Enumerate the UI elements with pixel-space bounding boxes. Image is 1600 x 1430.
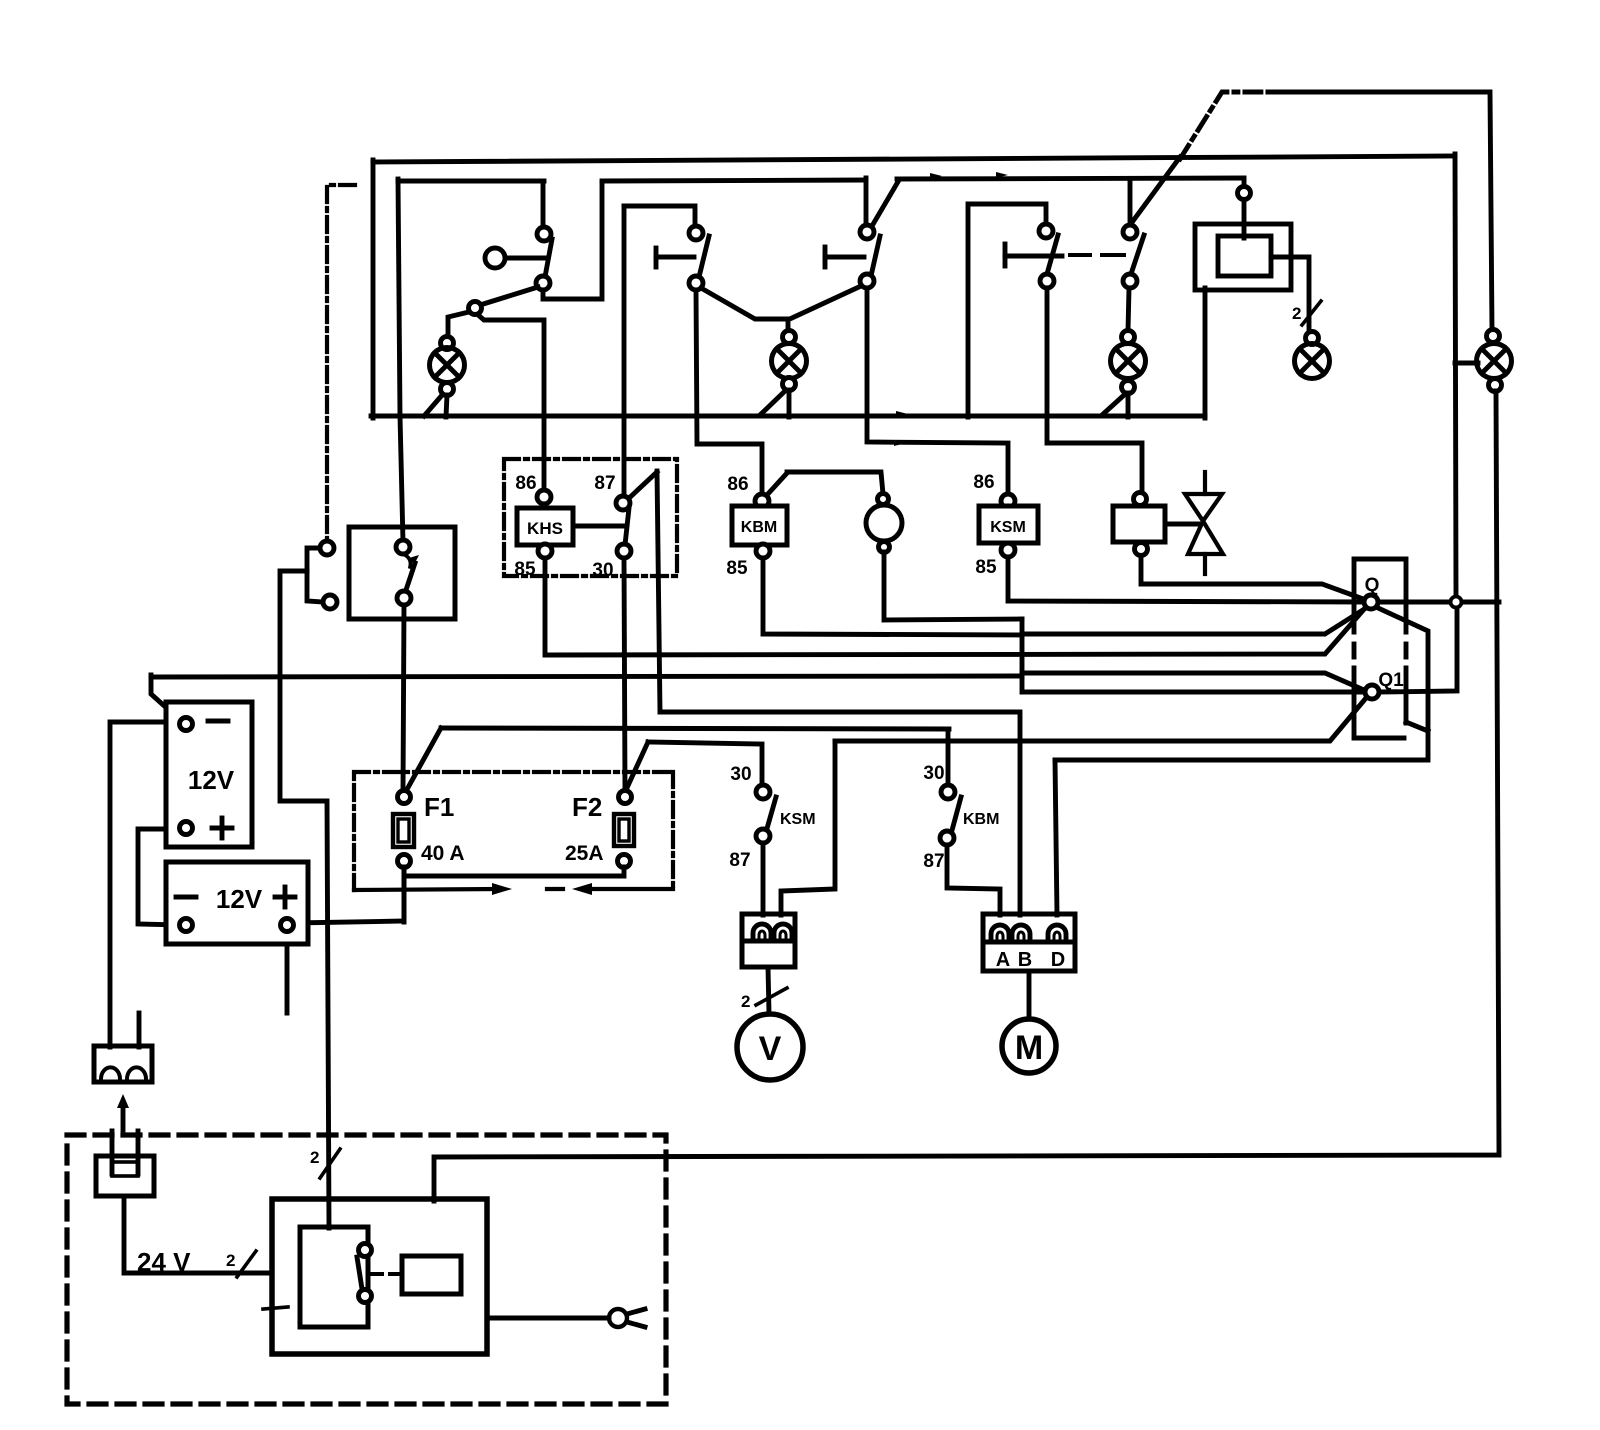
- voltmeter V: [737, 1014, 803, 1080]
- KSM 85 wire to Q: [1008, 557, 1364, 602]
- push switch SB bracket: [307, 548, 323, 602]
- valve link: [1165, 522, 1200, 527]
- KHS pivot wire: [657, 471, 660, 712]
- switch S2 actuator bar: [656, 248, 694, 267]
- push switch SB tap wire: [280, 571, 329, 1228]
- relay K terminal stub: [1242, 178, 1247, 188]
- switch S3 feed corner: [864, 178, 869, 227]
- lamp L3 bottom wires: [1102, 393, 1128, 417]
- switch S1 top contact: [537, 227, 551, 241]
- lamp L1 top terminal: [441, 337, 454, 350]
- inner top wire segment 1: [398, 179, 544, 184]
- fuse F2 top terminal: [619, 791, 632, 804]
- battery G1 negative arrow: [166, 709, 184, 723]
- svg-text:F1: F1: [424, 792, 454, 822]
- battery G2 down wire: [285, 932, 290, 1013]
- solenoid Y top terminal: [1134, 493, 1147, 506]
- svg-text:87: 87: [729, 850, 750, 871]
- heater plug output wire: [124, 1196, 271, 1273]
- switch S1 output jog wire: [543, 183, 602, 299]
- switch S1 lever: [545, 239, 552, 277]
- solenoid Y box: [1113, 506, 1165, 542]
- KHS pivot to connector B wire: [660, 712, 1020, 915]
- left frame wire: [371, 160, 376, 418]
- relay K inner box: [1218, 236, 1271, 276]
- switch S3 bottom contact: [860, 274, 874, 288]
- svg-text:85: 85: [514, 559, 536, 580]
- switch KBM top contact: [941, 785, 955, 799]
- svg-text:KSM: KSM: [780, 811, 816, 828]
- connector X1: [742, 914, 795, 967]
- charger box: [272, 1199, 487, 1354]
- dash-dot link top right: [1180, 92, 1274, 159]
- lamp L2 bottom terminal: [783, 378, 796, 391]
- lamp L3 top terminal: [1122, 331, 1135, 344]
- svg-text:KSM: KSM: [990, 519, 1026, 536]
- battery G1 negative corner wire: [151, 675, 180, 720]
- switch S3 actuator bar: [825, 247, 864, 267]
- KHS 85 terminal: [538, 544, 552, 558]
- lower fuse FU: [94, 1046, 152, 1082]
- pump feed terminal: [878, 494, 889, 505]
- KHS 86 feed wire: [477, 314, 544, 491]
- switch S2 to lamp L2 wire: [701, 288, 788, 331]
- inner top wire segment 2: [602, 180, 866, 181]
- svg-text:24 V: 24 V: [137, 1247, 191, 1277]
- lower fuse feed wire: [137, 1013, 142, 1047]
- bottom return wire: [434, 391, 1499, 1201]
- lamp L4 terminal: [1306, 332, 1319, 345]
- breaker bottom contact: [397, 591, 411, 605]
- F1 feed drop wire: [398, 179, 403, 542]
- relay K terminal: [1238, 187, 1251, 200]
- lamp L5: [1477, 344, 1512, 379]
- junction circle: [469, 302, 482, 315]
- pump symbol: [866, 505, 902, 541]
- switch S2 lever: [699, 236, 709, 277]
- lamp L5 left branch wire: [1455, 361, 1478, 366]
- switch S1 mid contact: [536, 276, 550, 290]
- switch S4 right lever: [1131, 235, 1144, 274]
- lamp L2 top terminal: [783, 331, 796, 344]
- switch KSM output wire: [761, 843, 766, 915]
- slash at lamp L4: [1302, 301, 1321, 325]
- switch S4 left lever: [1047, 235, 1058, 274]
- fuse F1 top terminal: [398, 791, 411, 804]
- KBM 85 terminal: [756, 544, 770, 558]
- battery G1 to fuse wire: [110, 722, 180, 1047]
- svg-text:86: 86: [515, 473, 536, 494]
- switch S4 feed wire: [968, 204, 1046, 417]
- battery series wire: [138, 829, 180, 925]
- top right wire to lamp L5: [1272, 92, 1492, 330]
- big dashed box: [67, 1135, 666, 1404]
- wire pump to Q1 jog: [1022, 619, 1365, 692]
- connector X1 right pin wire: [781, 741, 835, 915]
- charger contact link: [372, 1272, 402, 1276]
- switch S3 top contact: [860, 225, 874, 239]
- svg-text:2: 2: [741, 992, 750, 1011]
- breaker lever: [405, 563, 415, 593]
- F1 load wire: [405, 728, 949, 793]
- switch S4 left top contact: [1039, 224, 1053, 238]
- fuse box dash outline: [354, 772, 673, 890]
- svg-text:30: 30: [592, 560, 613, 581]
- wire KBM85 to Q: [1022, 608, 1366, 634]
- lamp L1: [430, 348, 465, 383]
- switch S4 left bottom contact: [1040, 274, 1054, 288]
- svg-text:86: 86: [973, 472, 994, 493]
- motor feed stub: [1027, 971, 1032, 1020]
- battery G1: [166, 702, 252, 847]
- wire to connector D: [1055, 607, 1428, 760]
- lamp L2 bottom wires: [760, 390, 789, 417]
- switch KBM output wire: [947, 845, 1000, 915]
- switch KSM bottom contact: [756, 829, 770, 843]
- svg-text:A: A: [996, 949, 1010, 971]
- breaker to F1 wire: [403, 605, 404, 791]
- connector X2: [983, 914, 1075, 971]
- wire bus to Q1: [1022, 673, 1364, 690]
- fuse link wire: [406, 867, 624, 876]
- charger top contact: [359, 1244, 372, 1257]
- KBM 85 wire: [763, 558, 1022, 635]
- switch S3 diagonal feed: [872, 180, 899, 226]
- relay K coil stub: [1242, 199, 1247, 238]
- charger edge tick: [263, 1307, 288, 1309]
- wire to Q1 lower: [835, 698, 1366, 741]
- switch S4 right stub: [1128, 181, 1133, 226]
- breaker hook: [405, 555, 410, 567]
- switch KBM bottom contact: [940, 831, 954, 845]
- relay K box: [1195, 224, 1291, 290]
- switch KBM lever: [951, 797, 961, 834]
- heater plug prongs: [112, 1131, 138, 1174]
- charger bottom contact: [359, 1290, 372, 1303]
- charger coil: [402, 1256, 461, 1294]
- charger contact lever: [357, 1257, 362, 1289]
- slash at 24V: [237, 1251, 256, 1277]
- switch KSM top contact: [756, 785, 770, 799]
- switch S4 actuator bar: [1005, 244, 1062, 266]
- arrow tick on inner line: [930, 173, 942, 179]
- right vertical wire: [1455, 154, 1456, 597]
- fuse F2 bottom terminal: [618, 855, 631, 868]
- KSM coil box: [979, 506, 1038, 543]
- svg-text:12V: 12V: [216, 884, 263, 914]
- breaker lever arrow: [409, 555, 419, 565]
- KHS coil link: [573, 524, 626, 529]
- fuse F1 bottom terminal: [398, 855, 411, 868]
- switch S2 to KBM wire: [696, 290, 762, 495]
- lamp L3 feed wire: [1128, 288, 1129, 331]
- KBM coil box: [732, 506, 787, 545]
- switch S1 handle: [485, 248, 547, 268]
- voltmeter feed stub: [768, 967, 769, 1013]
- fuse box arrow right: [492, 883, 512, 895]
- outer top bus wire: [373, 156, 1455, 162]
- charger inner box: [300, 1227, 368, 1327]
- fuse F1: [393, 814, 414, 847]
- mains plug: [609, 1309, 645, 1327]
- connector D riser: [1055, 760, 1057, 915]
- svg-text:KHS: KHS: [527, 519, 563, 538]
- valve symbol: [1185, 472, 1223, 574]
- svg-text:2: 2: [1292, 304, 1301, 323]
- svg-text:D: D: [1051, 949, 1065, 971]
- lamp L3 bottom terminal: [1122, 381, 1135, 394]
- svg-text:B: B: [1018, 949, 1032, 971]
- KHS 87 riser: [622, 206, 627, 497]
- fuse F2: [614, 814, 634, 846]
- svg-text:Q1: Q1: [1378, 670, 1404, 691]
- Q output wire: [1378, 600, 1450, 605]
- switch S3 to KSM wire: [867, 288, 1008, 495]
- arrow to fuse: [117, 1094, 129, 1130]
- connector Q box: [1354, 559, 1406, 738]
- breaker top contact: [396, 540, 410, 554]
- inner top wire segment 3: [897, 178, 1244, 179]
- svg-text:30: 30: [923, 763, 944, 784]
- relay K feed riser: [1203, 288, 1208, 418]
- switch S4 to solenoid wire: [1047, 288, 1142, 494]
- switch S2 top contact: [689, 226, 703, 240]
- push switch SB top contact: [320, 541, 334, 555]
- KHS 87 terminal: [616, 496, 630, 510]
- slash at charger feed: [320, 1149, 340, 1178]
- pump bottom terminal: [879, 542, 890, 553]
- lamp L5 top terminal: [1487, 330, 1500, 343]
- push switch SB bottom contact: [323, 595, 337, 609]
- svg-text:40 A: 40 A: [421, 842, 465, 865]
- arrow tick on inner line 2: [996, 172, 1008, 178]
- battery G1 negative terminal: [180, 718, 193, 731]
- Q1 output wire: [1379, 607, 1457, 692]
- lamp L2: [772, 344, 807, 379]
- svg-text:25A: 25A: [565, 842, 604, 865]
- arrow tick on bus: [896, 411, 908, 417]
- switch KSM lever: [766, 797, 776, 832]
- svg-text:M: M: [1015, 1029, 1043, 1067]
- fuse box arrow left: [572, 883, 592, 895]
- svg-text:87: 87: [594, 473, 615, 494]
- switch S3 lever: [871, 236, 880, 276]
- fuse F1 bottom wire: [402, 867, 407, 922]
- svg-text:12V: 12V: [188, 765, 235, 795]
- connector Q terminal: [1364, 595, 1378, 609]
- KBM switch riser: [946, 729, 951, 786]
- heater plug box: [96, 1156, 154, 1196]
- KBM 86 to pump wire: [766, 472, 883, 496]
- lamp L1 bottom wires: [424, 394, 447, 417]
- svg-text:86: 86: [727, 474, 748, 495]
- switch S3 to lamp L2 wire: [792, 286, 861, 318]
- switch S4 gang dashes: [1070, 253, 1124, 257]
- slash at voltmeter: [756, 988, 787, 1005]
- battery G1 positive terminal: [180, 822, 193, 835]
- lamp L5 bottom terminal: [1489, 379, 1502, 392]
- switch S4 right bottom contact: [1123, 274, 1137, 288]
- bottom bus wire: [371, 414, 1205, 419]
- svg-text:2: 2: [310, 1148, 319, 1167]
- lamp L4: [1295, 344, 1330, 379]
- svg-text:F2: F2: [572, 792, 602, 822]
- KHS contact lever: [625, 508, 629, 545]
- junction circle: [1451, 597, 1462, 608]
- KSM 85 terminal: [1001, 543, 1015, 557]
- svg-text:30: 30: [730, 764, 751, 785]
- KHS 86 terminal: [537, 490, 551, 504]
- KHS dash-dot box: [504, 459, 677, 576]
- svg-text:KBM: KBM: [741, 519, 777, 536]
- battery G2: [166, 862, 308, 944]
- svg-text:85: 85: [726, 558, 748, 579]
- battery G2 positive terminal: [281, 919, 294, 932]
- KHS 85 wire to Q: [545, 558, 1366, 655]
- switch S1 to junction wire: [480, 287, 538, 305]
- KHS 30 wire to F2: [624, 558, 625, 791]
- svg-text:V: V: [759, 1030, 782, 1068]
- svg-text:85: 85: [975, 557, 997, 578]
- KSM 86 terminal: [1001, 494, 1015, 508]
- solenoid Y bottom terminal: [1135, 543, 1148, 556]
- dash-dot wire to S1: [327, 185, 355, 541]
- relay K to lamp L4 wire: [1271, 257, 1309, 332]
- switch S2 feed wire: [624, 206, 695, 227]
- svg-text:KBM: KBM: [963, 811, 999, 828]
- connector Q1 terminal: [1365, 685, 1379, 699]
- battery bus wire: [151, 676, 1022, 677]
- Q output wire right: [1462, 600, 1499, 605]
- motor M: [1002, 1019, 1056, 1073]
- connector Q box exit diagonal: [1406, 722, 1428, 731]
- lamp L1 feed wire: [448, 312, 469, 337]
- lamp L1 bottom terminal: [441, 383, 454, 396]
- KHS coil box: [517, 508, 573, 545]
- KHS 30 terminal: [617, 544, 631, 558]
- switch S4 diagonal feed: [1133, 157, 1180, 221]
- arrow tick on S3 wire: [894, 440, 906, 446]
- breaker box: [349, 527, 455, 619]
- KHS lever arm: [627, 472, 657, 500]
- charger output wire: [487, 1316, 609, 1321]
- KBM 86 terminal: [755, 494, 769, 508]
- pump output wire: [884, 552, 1022, 620]
- svg-text:87: 87: [923, 851, 944, 872]
- battery G2 positive wire: [294, 866, 404, 923]
- lamp L3: [1111, 344, 1146, 379]
- switch S4 right top contact: [1123, 225, 1137, 239]
- F2 load wire: [626, 742, 762, 790]
- svg-text:2: 2: [226, 1251, 235, 1270]
- switch S1 feed stub: [541, 181, 546, 228]
- battery G2 negative terminal: [180, 919, 193, 932]
- switch S2 bottom contact: [689, 276, 703, 290]
- solenoid to Q wire: [1141, 556, 1366, 600]
